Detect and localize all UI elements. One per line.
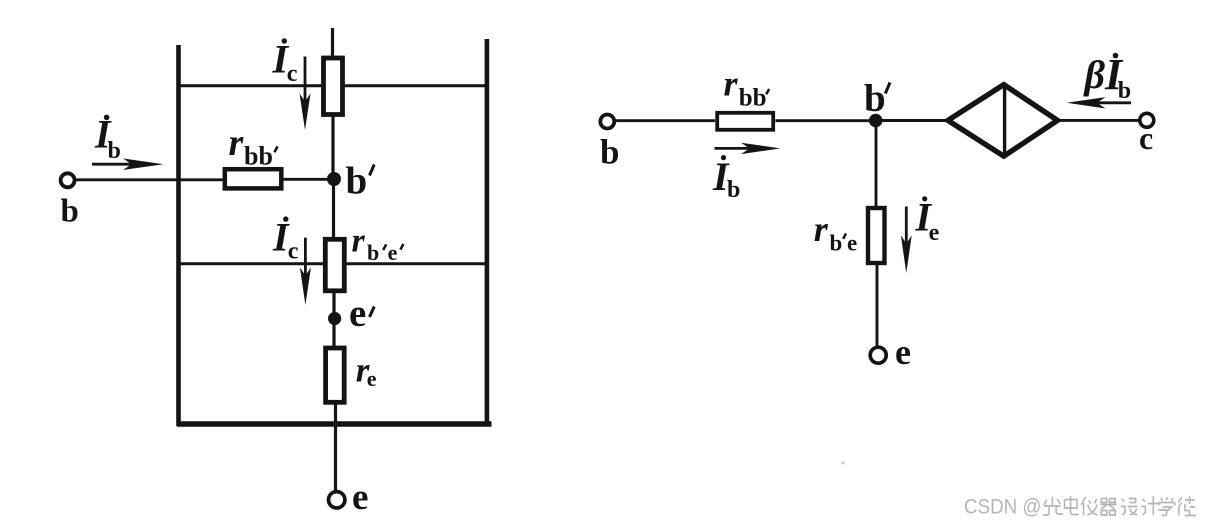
arrow I_c upper (left circuit)	[300, 57, 311, 131]
watermark CSDN	[964, 496, 1042, 519]
svg-text:e: e	[349, 292, 366, 335]
svg-text:b: b	[108, 138, 121, 164]
svg-text:b: b	[830, 230, 843, 255]
svg-text:e: e	[352, 477, 368, 518]
label I_b (right circuit)	[712, 154, 740, 203]
arrow beta I_b (pointing left)	[1067, 97, 1131, 108]
node e'	[328, 312, 341, 325]
svg-text:b: b	[61, 193, 79, 229]
svg-text:c: c	[1139, 120, 1153, 156]
svg-text:c: c	[288, 238, 299, 264]
label b' node (left circuit)	[346, 160, 375, 203]
terminal e (right circuit)	[870, 347, 886, 363]
glyph ji	[1141, 496, 1159, 515]
arrow I_e (right circuit)	[901, 207, 912, 274]
wire node b' to current source	[876, 119, 949, 122]
svg-text:r: r	[229, 122, 245, 164]
watermark CJK glyph strokes	[1043, 496, 1196, 516]
svg-text:β: β	[1083, 52, 1106, 97]
glyph yi	[1081, 497, 1097, 516]
svg-text:b: b	[864, 77, 886, 120]
resistor r_e	[326, 348, 345, 402]
wire r_e to terminal e	[334, 402, 337, 491]
label e terminal (right circuit)	[895, 332, 911, 372]
label I_b (left circuit)	[94, 112, 121, 165]
svg-text:bb: bb	[244, 142, 273, 171]
terminal e (left circuit)	[329, 492, 345, 508]
label r_bb' (left circuit)	[229, 122, 278, 171]
label e' node	[349, 292, 374, 335]
resistor r_b'e	[868, 208, 885, 263]
svg-text:e: e	[929, 220, 940, 246]
arrow I_b (right circuit)	[715, 143, 781, 154]
glyph dian	[1064, 496, 1078, 515]
label I_e (right circuit)	[915, 194, 940, 246]
wire horizontal emitter boundary	[178, 262, 488, 265]
svg-text:r: r	[724, 64, 739, 104]
wire terminal b to r_bb' (right circuit)	[616, 119, 716, 122]
resistor r_bb' (right circuit)	[717, 113, 773, 130]
svg-text:CSDN @: CSDN @	[964, 496, 1042, 519]
wire node b' down to r_b'e	[875, 121, 878, 208]
resistor r_bb' (left circuit)	[225, 169, 281, 188]
svg-text:b: b	[346, 160, 368, 203]
svg-text:b: b	[727, 177, 740, 203]
wire node b' to r_b'e'	[332, 179, 335, 239]
label e terminal (left circuit)	[352, 477, 368, 518]
wire r_b'e' to r_e through node e'	[332, 291, 335, 348]
svg-text:b: b	[600, 132, 619, 171]
glyph she	[1121, 499, 1138, 516]
wire horizontal collector boundary	[178, 84, 488, 87]
node b' (left circuit)	[327, 172, 341, 186]
svg-text:r: r	[814, 209, 829, 249]
terminal c	[1140, 113, 1154, 127]
svg-text:e: e	[895, 332, 911, 372]
svg-text:e: e	[388, 240, 398, 265]
glyph guang	[1043, 497, 1063, 515]
wire r_b'e to terminal e (right circuit)	[876, 264, 879, 347]
label r_b'e'	[352, 223, 404, 266]
svg-text:r: r	[352, 223, 366, 260]
wire r_bb' to node b' (right circuit)	[776, 119, 877, 122]
label c terminal	[1139, 120, 1153, 156]
svg-text:b: b	[367, 240, 379, 265]
label r_b'e	[814, 209, 857, 255]
label b terminal (right circuit)	[600, 132, 619, 171]
arrow I_c lower (left circuit)	[300, 238, 311, 305]
terminal b (left circuit)	[61, 173, 75, 187]
wire top-resistor to node b'	[331, 114, 334, 180]
terminal b (right circuit)	[600, 115, 614, 129]
arrow I_b (left circuit)	[92, 158, 164, 170]
svg-text:c: c	[287, 61, 298, 87]
wire current source to terminal c	[1056, 119, 1140, 122]
wire r_bb' to node b'	[284, 178, 335, 181]
resistor r_b'e'	[325, 239, 344, 290]
svg-text:b: b	[1118, 78, 1131, 104]
svg-text:e: e	[847, 230, 857, 255]
wire terminal b to r_bb'	[76, 178, 223, 181]
label I_c upper	[272, 37, 298, 87]
wire collector stub top	[331, 28, 334, 58]
label I_c lower	[272, 215, 299, 265]
glyph qi	[1100, 499, 1116, 516]
wire bottom boundary	[177, 421, 492, 426]
right rail (base region boundary)	[485, 39, 490, 426]
node b' (right circuit)	[869, 114, 883, 128]
svg-text:bb: bb	[739, 85, 767, 112]
svg-text:e: e	[367, 366, 377, 391]
stray scan speck	[841, 461, 844, 464]
label beta I_b	[1083, 50, 1132, 104]
resistor collector (top, unlabeled)	[324, 58, 343, 115]
glyph xue	[1158, 497, 1174, 516]
label b terminal (left circuit)	[61, 193, 79, 229]
label r_e	[356, 351, 377, 392]
current source diamond (beta*I_b)	[948, 85, 1058, 157]
glyph tu	[1178, 497, 1196, 516]
label r_bb' (right circuit)	[724, 64, 770, 112]
left rail (base region boundary)	[176, 45, 181, 426]
label b' (right circuit)	[864, 77, 890, 120]
